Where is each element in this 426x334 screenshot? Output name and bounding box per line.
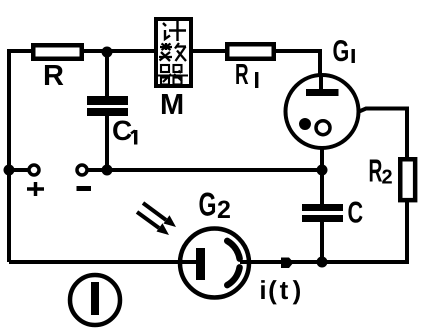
node D junction dot [317,257,328,268]
resistor R2 [400,159,415,200]
current arrow i(t) [281,258,294,269]
wire bottom left section to G2 anode [9,260,196,264]
counter box M [156,19,191,86]
wire R1 to G1 top corner [276,51,320,75]
svg-text:C: C [112,115,132,146]
node E junction dot at C1 bottom [102,165,113,176]
label 器 (drawn strokes) [158,65,188,85]
wire bottom right section G2 to R2 branch [241,202,407,262]
meter symbol circled bar [70,275,120,325]
wire G1 bottom through node B to capacitor C [320,148,324,204]
label 数 (drawn strokes) [159,43,186,61]
G1 cathode dot [299,118,311,130]
G1 anode plate [306,89,339,96]
svg-text:R: R [369,153,383,189]
minus sign [77,186,92,191]
svg-text:t: t [280,275,289,305]
wire left vertical and bottom-left [7,51,11,262]
svg-text:2: 2 [217,196,231,224]
svg-text:(: ( [268,275,277,305]
svg-text:M: M [160,89,184,121]
svg-text:G: G [199,186,217,223]
svg-text:C: C [348,197,364,230]
wire plus terminal stub [9,168,28,172]
wire top from left corner to R [7,49,31,53]
svg-text:G: G [333,35,350,68]
svg-text:R: R [43,60,64,92]
G1 anode stem [319,74,323,90]
wire C1 bottom to mid line [105,116,109,170]
tube G1 envelope [286,75,359,148]
wire counter box to R1 [193,49,225,53]
wire G1 grid diagonal to right branch [330,109,407,161]
resistor R1 [227,44,274,59]
G2 anode stem wire [178,260,196,264]
wire capacitor C bottom to node D [320,222,324,262]
svg-text:2: 2 [382,167,393,189]
capacitor C bottom plate [302,215,343,222]
svg-text:i: i [259,275,266,305]
minus terminal circle [77,165,87,175]
label i(t) [259,275,301,305]
plus sign [27,182,44,196]
G2 cathode arc lower [227,267,239,285]
light arrow upper [143,203,176,227]
phototube G2 envelope [180,229,249,298]
label 计 (drawn strokes) [163,21,186,41]
plus terminal circle [29,165,39,175]
G2 cathode wire through gap [240,260,252,264]
wire mid horizontal minus terminal to G1 cathode node [88,168,322,172]
wire C1 top drop from node A [105,52,109,96]
capacitor C top plate [302,204,343,211]
G1 grid circle [316,121,330,135]
node B junction dot [317,165,328,176]
node at left edge junction dot [4,165,15,176]
capacitor C1 bottom plate [87,108,128,116]
G2 cathode arc upper [227,241,239,259]
G2 anode bar [196,248,205,280]
capacitor C1 top plate [87,96,128,105]
meter inner bar [91,282,99,315]
svg-text:R: R [235,59,249,91]
light arrow lower [137,212,169,235]
resistor R [33,45,82,59]
wire R to counter box [84,49,154,53]
node A junction dot [102,47,113,58]
svg-text:): ) [293,275,302,305]
